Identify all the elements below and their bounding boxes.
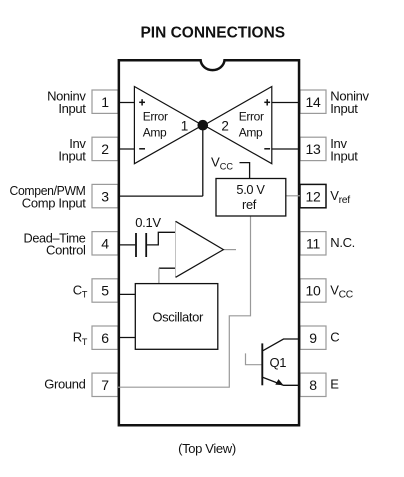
svg-text:PIN CONNECTIONS: PIN CONNECTIONS — [140, 25, 285, 42]
svg-text:ref: ref — [242, 197, 257, 212]
svg-text:Ground: Ground — [44, 377, 85, 392]
svg-text:9: 9 — [309, 330, 317, 346]
svg-text:(Top View): (Top View) — [178, 441, 236, 456]
svg-text:1: 1 — [101, 94, 109, 110]
svg-text:C: C — [330, 330, 339, 345]
svg-text:2: 2 — [101, 141, 109, 157]
svg-text:Error: Error — [239, 109, 264, 123]
svg-text:6: 6 — [101, 330, 109, 346]
svg-text:5: 5 — [101, 283, 109, 299]
svg-text:12: 12 — [306, 188, 321, 204]
svg-text:4: 4 — [101, 236, 109, 252]
svg-text:Amp: Amp — [143, 125, 167, 139]
svg-text:1: 1 — [181, 118, 189, 133]
svg-text:Q1: Q1 — [270, 355, 287, 370]
svg-text:Control: Control — [46, 243, 86, 258]
svg-text:8: 8 — [309, 377, 317, 393]
svg-text:7: 7 — [101, 377, 109, 393]
svg-text:N.C.: N.C. — [330, 235, 355, 250]
svg-text:5.0 V: 5.0 V — [236, 182, 265, 197]
svg-text:10: 10 — [306, 283, 321, 299]
svg-text:Amp: Amp — [239, 125, 263, 139]
svg-text:Input: Input — [58, 148, 86, 163]
svg-text:Error: Error — [143, 109, 168, 123]
svg-text:Input: Input — [58, 101, 86, 116]
svg-text:Input: Input — [330, 101, 358, 116]
svg-text:2: 2 — [221, 118, 229, 133]
svg-text:Oscillator: Oscillator — [152, 309, 204, 324]
svg-text:Input: Input — [330, 148, 358, 163]
svg-text:0.1V: 0.1V — [135, 215, 161, 230]
svg-text:E: E — [330, 377, 339, 392]
svg-text:14: 14 — [306, 94, 321, 110]
svg-text:3: 3 — [101, 188, 109, 204]
svg-text:13: 13 — [306, 141, 321, 157]
svg-text:Comp Input: Comp Input — [22, 196, 86, 211]
svg-text:11: 11 — [306, 236, 320, 252]
